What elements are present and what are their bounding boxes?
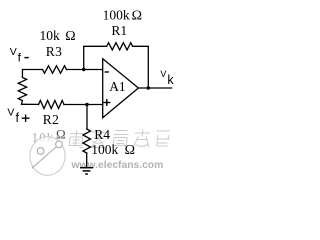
wire R4 bottom lead to ground xyxy=(86,153,88,167)
watermark logo small circle right xyxy=(56,141,63,148)
resistor R2 xyxy=(39,101,65,109)
svg-text:100k: 100k xyxy=(91,142,118,157)
svg-text:Ω: Ω xyxy=(65,29,75,44)
svg-text:A1: A1 xyxy=(109,79,126,94)
node junction R3 / feedback xyxy=(82,68,85,71)
svg-text:k: k xyxy=(167,73,174,87)
watermark logo disc xyxy=(30,137,65,176)
ground xyxy=(80,168,93,174)
resistor (unlabeled, vertical between Vf- and Vf+ lines) xyxy=(18,70,26,105)
svg-text:R2: R2 xyxy=(43,112,59,127)
resistor R3 xyxy=(43,66,67,73)
svg-text:100k: 100k xyxy=(103,7,130,22)
wire R3 to op-amp inverting input xyxy=(67,69,103,71)
node junction output / feedback xyxy=(147,86,150,89)
svg-text:V: V xyxy=(10,46,17,58)
node junction R2 / R4 xyxy=(85,103,88,106)
svg-text:f: f xyxy=(18,50,22,64)
wire R4 top lead xyxy=(86,105,88,130)
resistor R4 xyxy=(83,129,91,153)
wire output to Vk xyxy=(138,87,171,89)
svg-text:Ω: Ω xyxy=(56,127,66,142)
svg-text:f: f xyxy=(16,111,20,125)
svg-text:Ω: Ω xyxy=(125,143,135,158)
resistor R1 xyxy=(107,43,133,50)
watermark chinese characters row xyxy=(68,130,170,148)
wire R1 to output node (right vertical) xyxy=(133,46,149,88)
op-amp A1 xyxy=(103,59,139,118)
svg-text:10k: 10k xyxy=(40,28,61,43)
wire feedback left vertical (node at R3 output up to R1) xyxy=(84,46,107,69)
wire Vf+ to R2 xyxy=(22,103,39,105)
svg-text:V: V xyxy=(160,69,166,79)
svg-text:www.elecfans.com: www.elecfans.com xyxy=(71,160,164,171)
svg-text:V: V xyxy=(7,107,14,119)
svg-text:R4: R4 xyxy=(94,127,110,142)
op-amp inverting pin mark - xyxy=(105,71,109,73)
svg-text:Ω: Ω xyxy=(132,8,142,23)
wire R2 to op-amp non-inverting input xyxy=(64,104,103,106)
watermark logo small circle left xyxy=(37,148,44,155)
wire Vf- to R3 xyxy=(23,69,43,71)
svg-text:R3: R3 xyxy=(46,44,62,59)
watermark logo arm xyxy=(32,144,60,169)
op-amp non-inverting pin mark + xyxy=(103,99,110,106)
svg-text:R1: R1 xyxy=(111,23,127,38)
